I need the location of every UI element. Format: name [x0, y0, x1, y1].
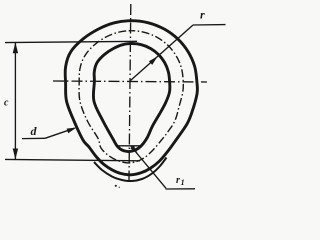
dimension c: top arrow: [13, 42, 18, 53]
r1 arrowhead on inner bottom arc: [130, 146, 138, 154]
dimension c: top extension line: [5, 41, 137, 42]
d arrowhead: [67, 128, 77, 134]
r1 label underline: [166, 188, 196, 190]
label d underline: [22, 137, 45, 139]
svg-text:d: d: [31, 124, 38, 138]
svg-text:r: r: [200, 8, 205, 22]
r shoulder horizontal: [193, 24, 226, 26]
scan specks near bottom tip: [115, 185, 117, 187]
dimension c: bottom arrow: [13, 149, 18, 160]
vertical centerline: [129, 4, 131, 180]
inner contour of link: [93, 44, 170, 152]
r1 radius line from small-circle center to label: [131, 146, 166, 188]
d leader line: [45, 128, 75, 138]
svg-text:1: 1: [181, 178, 185, 187]
dimension c: bottom extension line: [5, 159, 140, 160]
outer contour of link: [65, 21, 197, 175]
pitch (rod axis) dash-dot line: [79, 31, 183, 163]
horizontal centerline: [53, 81, 207, 82]
svg-text:r: r: [176, 175, 180, 186]
svg-text:c: c: [4, 97, 9, 108]
r radius line from center to shoulder: [131, 25, 194, 81]
dimension c: vertical dimension line: [14, 43, 16, 160]
r arrowhead on inner contour: [149, 56, 158, 65]
small circle horizontal center mark: [117, 145, 141, 147]
outer contour ghost line (doubled scan stroke at bottom): [94, 158, 167, 182]
